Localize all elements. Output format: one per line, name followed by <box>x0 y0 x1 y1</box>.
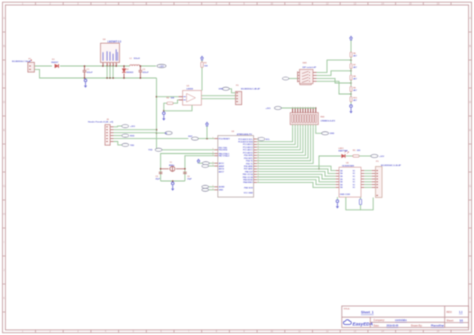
svg-text:1: 1 <box>213 186 214 188</box>
svg-text:+3V3: +3V3 <box>130 126 136 128</box>
svg-text:PharosKhar: PharosKhar <box>431 326 444 328</box>
svg-text:10K: 10K <box>171 98 175 100</box>
svg-text:ATMEGA8A-PU: ATMEGA8A-PU <box>237 133 253 136</box>
svg-text:AREF: AREF <box>219 165 225 168</box>
svg-text:PD1 TXD: PD1 TXD <box>219 148 228 150</box>
svg-text:1B: 1B <box>340 184 343 186</box>
svg-text:GND: GND <box>219 89 224 91</box>
svg-text:Drawn By:: Drawn By: <box>411 326 423 328</box>
svg-text:PD7 AIN1: PD7 AIN1 <box>244 168 254 171</box>
svg-text:100uH: 100uH <box>134 58 141 60</box>
svg-text:1B: 1B <box>340 187 343 189</box>
svg-text:PB4 MISO: PB4 MISO <box>243 181 253 184</box>
svg-text:Header Female-6 [J4_:x6]: Header Female-6 [J4_:x6] <box>88 121 113 124</box>
svg-text:PC5 ADC5 SCL: PC5 ADC5 SCL <box>238 138 253 141</box>
svg-text:1B: 1B <box>340 173 343 175</box>
svg-text:PB1 OC1A: PB1 OC1A <box>243 173 254 176</box>
svg-text:ULN2003AN: ULN2003AN <box>342 164 354 167</box>
svg-text:1B: 1B <box>340 170 343 172</box>
svg-text:1: 1 <box>213 152 214 154</box>
svg-text:PC1 ADC1: PC1 ADC1 <box>243 149 254 152</box>
svg-text:1: 1 <box>213 162 214 164</box>
svg-text:REV:: REV: <box>447 311 453 314</box>
svg-text:MJ-BDD04-C-4E-4P: MJ-BDD04-C-4E-4P <box>241 88 261 91</box>
svg-text:RXD: RXD <box>130 136 135 138</box>
svg-text:1: 1 <box>213 154 214 156</box>
svg-text:LM2596T-3.3: LM2596T-3.3 <box>108 42 122 44</box>
svg-text:LED1: LED1 <box>339 148 345 150</box>
svg-text:1: 1 <box>213 137 214 139</box>
svg-text:Sheet:: Sheet: <box>447 320 455 323</box>
svg-text:PB2 OC1B: PB2 OC1B <box>243 177 254 179</box>
svg-text:DIP switch 4P: DIP switch 4P <box>303 66 317 69</box>
svg-text:220uF: 220uF <box>143 72 150 74</box>
svg-text:PD5 T1: PD5 T1 <box>246 163 254 165</box>
svg-text:PC4 ADC4 SDA: PC4 ADC4 SDA <box>238 141 253 144</box>
svg-text:PC2 ADC2: PC2 ADC2 <box>243 146 254 149</box>
svg-text:1B: 1B <box>340 179 343 181</box>
svg-text:ADC6: ADC6 <box>219 168 225 171</box>
svg-text:+12V: +12V <box>379 156 385 158</box>
svg-text:PB5 SCK: PB5 SCK <box>244 188 253 190</box>
svg-text:GND: GND <box>219 190 224 192</box>
svg-text:PC6 RESET: PC6 RESET <box>219 138 231 140</box>
svg-text:TITLE:: TITLE: <box>344 309 351 311</box>
svg-text:PB7 XTAL2: PB7 XTAL2 <box>219 155 231 158</box>
svg-text:G: G <box>3 185 5 188</box>
svg-text:C: C <box>469 73 471 76</box>
svg-text:TXD: TXD <box>130 145 135 147</box>
svg-text:SCL: SCL <box>266 139 271 141</box>
svg-text:1: 1 <box>213 165 214 167</box>
svg-text:3: 3 <box>110 64 111 66</box>
svg-text:EasyEDA: EasyEDA <box>353 322 373 327</box>
svg-text:PD3 INT1: PD3 INT1 <box>244 158 254 160</box>
svg-text:TXD: TXD <box>148 150 153 152</box>
svg-text:D: D <box>3 101 5 104</box>
svg-text:EMITTER: EMITTER <box>339 151 349 153</box>
svg-text:1B: 1B <box>340 176 343 178</box>
svg-text:Sheet_1: Sheet_1 <box>361 311 374 315</box>
svg-text:10K: 10K <box>204 66 208 68</box>
svg-text:1: 1 <box>213 189 214 191</box>
svg-text:MJ-EDD04C-5-24-4P: MJ-EDD04C-5-24-4P <box>381 164 401 167</box>
svg-text:H: H <box>3 213 5 216</box>
svg-text:GND: GND <box>330 133 335 135</box>
svg-text:PD4 T0: PD4 T0 <box>246 160 254 163</box>
svg-text:+3V3: +3V3 <box>266 108 272 110</box>
svg-text:D: D <box>469 101 471 104</box>
svg-text:100uF: 100uF <box>87 72 94 74</box>
svg-text:Company:: Company: <box>374 320 385 322</box>
svg-text:C: C <box>3 73 5 76</box>
svg-text:AVCC: AVCC <box>219 162 225 165</box>
svg-text:1B: 1B <box>340 182 343 184</box>
svg-text:AGND: AGND <box>219 186 225 189</box>
svg-text:A0: A0 <box>165 132 167 135</box>
svg-text:H: H <box>469 213 471 216</box>
svg-text:2019-03-05: 2019-03-05 <box>387 326 399 328</box>
svg-text:PD6 AIN0: PD6 AIN0 <box>244 165 254 168</box>
svg-text:1N4007: 1N4007 <box>51 61 59 64</box>
svg-text:PD2 INT0: PD2 INT0 <box>244 155 254 157</box>
svg-text:+3V3: +3V3 <box>159 66 163 68</box>
svg-text:G: G <box>469 185 471 188</box>
svg-text:ADC7: ADC7 <box>219 170 225 173</box>
svg-text:RST: RST <box>188 136 193 138</box>
svg-text:VCC GND: VCC GND <box>244 193 254 195</box>
svg-text:LM358: LM358 <box>187 88 194 90</box>
svg-text:8MHz: 8MHz <box>169 165 174 167</box>
svg-text:CRMB10-8-472: CRMB10-8-472 <box>321 120 336 123</box>
svg-text:1: 1 <box>213 149 214 151</box>
svg-text:GND COM: GND COM <box>340 194 350 196</box>
svg-text:1/1: 1/1 <box>460 319 464 323</box>
svg-text:controlabs: controlabs <box>395 319 407 322</box>
svg-text:PC3 ADC3: PC3 ADC3 <box>243 143 254 146</box>
svg-text:Date:: Date: <box>374 325 380 328</box>
svg-text:PB0 ICP: PB0 ICP <box>245 171 253 173</box>
svg-text:PB3 MOSI: PB3 MOSI <box>243 180 253 182</box>
svg-text:1.1: 1.1 <box>459 310 463 314</box>
svg-text:1N5822: 1N5822 <box>126 72 134 74</box>
svg-text:PD0 RXD: PD0 RXD <box>219 150 228 152</box>
svg-text:PC0 ADC0: PC0 ADC0 <box>243 151 254 154</box>
